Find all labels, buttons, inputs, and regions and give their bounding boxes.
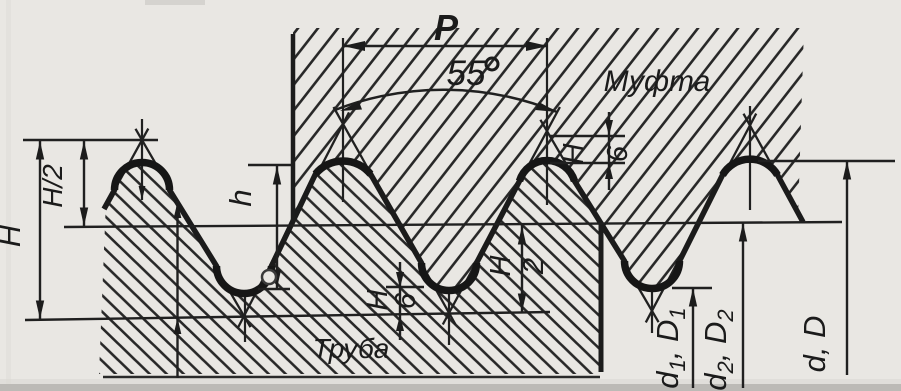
svg-text:55: 55 xyxy=(447,54,486,93)
crest3 major level terminal xyxy=(550,162,625,164)
flank r3-c4 xyxy=(646,114,756,323)
svg-text:6: 6 xyxy=(602,145,634,162)
svg-text:6: 6 xyxy=(390,292,422,309)
P dimension line xyxy=(343,45,548,47)
pitch line xyxy=(64,222,842,227)
thick rounded thread profile wave xyxy=(104,159,803,293)
dimension verticals xyxy=(40,46,847,388)
flank r2-c3 (extended up for 55° arc) xyxy=(443,107,560,325)
faint page-top smudge xyxy=(145,0,205,5)
svg-text:Муфта: Муфта xyxy=(604,65,711,98)
svg-text:P: P xyxy=(434,7,459,48)
faint left streak xyxy=(6,0,11,391)
arrowheads xyxy=(36,41,851,334)
x177 bottom-line arrow xyxy=(174,318,182,334)
pipe cut edge right (thick) xyxy=(599,224,604,372)
H/6 crest dim xyxy=(608,112,610,190)
P left arrow xyxy=(343,41,365,51)
d2,D2 arrow xyxy=(739,223,747,242)
h bottom terminal (root1 minor level) xyxy=(258,288,290,290)
H bottom arrow xyxy=(36,301,44,320)
x177 flank arrow xyxy=(174,202,182,218)
svg-text:h: h xyxy=(223,189,258,206)
d,D dim xyxy=(846,161,848,375)
crest2 centerline + P extension xyxy=(342,38,344,202)
bottom scan band xyxy=(0,384,901,391)
flank r1-c2 xyxy=(238,112,349,327)
crest1 centerline arrow xyxy=(139,186,146,200)
H top arrow xyxy=(36,141,44,160)
root2 minor level terminal xyxy=(386,286,424,288)
H/2 root top arrow xyxy=(518,226,526,245)
d1,D1 arrow xyxy=(689,288,697,307)
H/2 root bottom arrow xyxy=(518,294,526,313)
H/6 root upper arrow xyxy=(396,272,404,288)
h top terminal (major level) xyxy=(248,164,292,166)
H dimension line xyxy=(39,140,41,320)
H/2 bottom arrow xyxy=(80,208,88,227)
svg-text:H: H xyxy=(0,224,27,247)
H/6 crest lower arrow xyxy=(605,163,613,179)
h top arrow xyxy=(273,166,281,185)
svg-text:2: 2 xyxy=(518,258,550,275)
thin sharp-V zigzag flank lines (extended past nodes) xyxy=(104,107,803,328)
svg-text:H: H xyxy=(558,143,590,164)
small circle artifact on flank xyxy=(262,270,276,284)
H/2 top arrow xyxy=(80,141,88,160)
svg-text:H: H xyxy=(485,255,517,276)
55 arc right arrow xyxy=(536,102,558,112)
flank c1-r1 xyxy=(136,129,251,327)
H/6 root lower arrow xyxy=(396,315,404,331)
svg-text:H/2: H/2 xyxy=(37,164,68,208)
flank c4-E xyxy=(744,114,804,222)
h dimension line xyxy=(276,165,278,289)
d2,D2 dim xyxy=(742,223,744,388)
unnamed vertical x=177 xyxy=(176,201,178,378)
d1,D1 dim xyxy=(692,288,694,388)
svg-text:Труба: Труба xyxy=(313,333,390,364)
root2 centerline xyxy=(448,290,450,345)
flank c2-r2 (extended up for 55° arc) xyxy=(334,107,456,324)
root1 centerline xyxy=(244,290,246,342)
d,D arrow xyxy=(843,161,851,180)
55 degree arc xyxy=(335,90,557,112)
horizontal reference lines xyxy=(23,136,895,320)
flank S-c1 xyxy=(104,129,148,209)
root3 centerline xyxy=(651,292,653,333)
pipe bottom line xyxy=(103,376,600,379)
crest4 centerline xyxy=(749,106,751,210)
heavier crest/root arcs overlay xyxy=(115,159,778,293)
crest1 centerline xyxy=(141,119,143,200)
H/6 crest upper arrow xyxy=(605,120,613,136)
root3 minor level / d1 terminal xyxy=(672,287,712,289)
H/2 root dim xyxy=(521,225,523,312)
H/6 root dim xyxy=(399,262,401,340)
d,D major line right xyxy=(758,160,895,162)
crest3 centerline + P extension xyxy=(546,38,548,205)
H/2 dimension line xyxy=(83,140,85,227)
coupling hatched section (Муфта) xyxy=(293,28,804,291)
coupling left edge (thick) xyxy=(291,34,296,222)
h bottom arrow xyxy=(273,270,281,289)
long sharp-root line xyxy=(25,312,550,320)
55 arc left arrow xyxy=(340,102,362,112)
thin centerlines xyxy=(142,38,750,345)
crest3 apex level terminal xyxy=(550,135,625,137)
svg-text:d, D: d, D xyxy=(797,316,832,373)
pipe hatched section (Труба) xyxy=(99,161,601,374)
P right arrow xyxy=(526,41,548,51)
flank c3-r3 xyxy=(540,120,658,322)
top-left line through crest1 apex xyxy=(23,139,158,141)
